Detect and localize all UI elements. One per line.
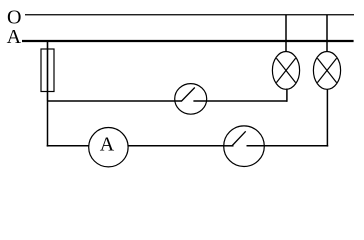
lamp L1 cross <box>276 58 295 82</box>
wire: bottom row from S2 to right corner <box>264 145 328 147</box>
wire: live line A <box>22 40 354 42</box>
wire: lamp L1 top lead to line O <box>285 15 287 52</box>
wire: lamp L2 top lead to line O <box>326 15 328 52</box>
lamp L2 cross <box>317 58 336 82</box>
svg-text:A: A <box>7 26 22 48</box>
wire: riser to lamp L1 <box>286 89 288 102</box>
switch S1 right contact <box>193 100 206 102</box>
switch S1 lever <box>182 88 195 102</box>
wire: lamp L2 bottom lead down to bottom row <box>326 89 328 146</box>
wire: bottom row left segment to ammeter <box>47 145 89 147</box>
switch S1 left contact <box>175 100 182 102</box>
svg-text:A: A <box>100 134 115 156</box>
switch S2 left contact <box>224 145 234 147</box>
wire: left vertical down to bottom row <box>47 101 49 147</box>
wire: fuse drop from line A <box>47 41 49 101</box>
switch S2 right contact <box>247 145 265 147</box>
switch S2 (circle) <box>224 126 265 167</box>
switch S2 lever <box>232 131 245 145</box>
wire: neutral line O <box>25 14 354 16</box>
lamp L2 (ellipse) <box>313 52 340 90</box>
ammeter PA (circle) <box>89 128 128 167</box>
wire: middle row from fuse to switch S1 <box>47 100 175 102</box>
lamp L1 (ellipse) <box>272 52 299 90</box>
fuse FU (rectangle) <box>41 49 54 92</box>
switch S1 (circle) <box>175 84 207 115</box>
wire: bottom row from ammeter to switch S2 <box>128 145 224 147</box>
wire: middle row from S1 to lamp L1 corner <box>206 100 287 102</box>
